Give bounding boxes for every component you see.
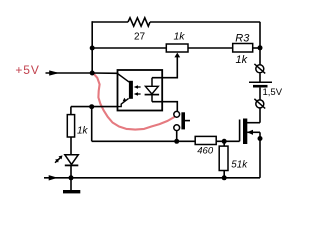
wire: R3 to right bus xyxy=(253,47,261,49)
resistor R3 body xyxy=(233,44,253,53)
svg-text:1,5V: 1,5V xyxy=(263,87,283,98)
test point (crossed circle) upper xyxy=(254,64,265,74)
label +5V xyxy=(15,63,39,77)
LED light arrows xyxy=(55,155,63,163)
label 27 xyxy=(134,31,146,42)
wire: diode anode to pot wiper xyxy=(152,53,180,78)
wire: diode cathode to button xyxy=(152,102,177,112)
svg-text:27: 27 xyxy=(134,31,146,42)
label 1,5V xyxy=(263,87,283,98)
label 1k (left resistor) xyxy=(77,126,89,137)
push button S1 xyxy=(174,111,190,141)
wire: +5V node to optocoupler xyxy=(92,72,117,74)
label 1k (potentiometer) xyxy=(173,30,185,42)
svg-text:51k: 51k xyxy=(231,160,248,171)
wire: test point to battery xyxy=(259,73,261,81)
transistor Q1 gate lead xyxy=(239,120,241,142)
wire: left vertical bus x=92 xyxy=(91,21,93,73)
junction node on emitter rail xyxy=(89,104,94,109)
input arrow (bottom rail) xyxy=(44,175,71,180)
wire: resistor to LED xyxy=(70,137,72,155)
wire: right bus upper xyxy=(259,22,261,65)
junction node at 51k top xyxy=(222,139,227,144)
wire: stub from emitter rail down to button rail xyxy=(91,107,93,142)
svg-text:R3: R3 xyxy=(235,33,250,45)
junction node at pot rail xyxy=(90,46,95,51)
test point (crossed circle) lower xyxy=(254,99,265,109)
wire: test point down to drain elbow xyxy=(259,108,261,122)
transistor Q1 source lead with arrow xyxy=(247,130,260,135)
input arrow +5V xyxy=(46,70,93,75)
ground xyxy=(63,178,80,194)
resistor 27 (zigzag) xyxy=(128,18,150,26)
resistor 51k body xyxy=(219,141,228,178)
svg-text:1k: 1k xyxy=(173,30,185,42)
optocoupler phototransistor emitter lead with arrow xyxy=(118,98,129,107)
wire: corner down to resistor 1k xyxy=(70,107,72,115)
wire: top rail right segment xyxy=(150,21,260,23)
freehand red highlight curve xyxy=(92,72,176,129)
label 460 xyxy=(197,145,214,156)
label 51k xyxy=(231,160,248,171)
junction node at ground xyxy=(69,175,74,180)
junction node at +5V xyxy=(90,71,95,76)
potentiometer 1k body xyxy=(166,44,188,52)
junction node at button xyxy=(174,139,179,144)
optocoupler light arrows xyxy=(134,85,141,95)
wire: top rail left segment xyxy=(92,21,128,23)
optocoupler U1 body xyxy=(118,70,163,111)
wire: bottom rail xyxy=(71,177,260,179)
resistor 1k (left vertical) xyxy=(67,115,74,137)
junction node 51k bottom xyxy=(222,175,227,180)
svg-text:1k: 1k xyxy=(77,126,89,137)
label 1k (R3 value) xyxy=(235,54,247,66)
wire: source down right bus xyxy=(259,132,261,178)
wire: LED to bottom rail xyxy=(70,165,72,177)
svg-text:460: 460 xyxy=(197,145,214,156)
battery cell 1,5V xyxy=(249,82,272,86)
transistor Q1 MOSFET channel bar xyxy=(243,119,247,145)
resistor 460 body xyxy=(195,136,216,144)
optocoupler LED (diode) xyxy=(145,78,160,102)
wire: button/gate rail y=141.3 xyxy=(92,140,240,142)
wire: pot to R3 xyxy=(188,47,233,49)
svg-text:1k: 1k xyxy=(235,54,247,66)
optocoupler phototransistor collector lead xyxy=(118,74,130,83)
junction node at right bus xyxy=(258,45,263,50)
wire: drain horizontal xyxy=(247,122,260,124)
junction node on source bus xyxy=(258,136,263,141)
label R3 xyxy=(235,33,250,45)
LED D1 xyxy=(65,155,79,166)
wire: battery to lower test point xyxy=(259,88,261,100)
svg-text:+5V: +5V xyxy=(15,63,39,77)
wire: emitter rail y=106.6 xyxy=(71,106,118,108)
optocoupler phototransistor base bar xyxy=(129,81,133,99)
wire: pot rail xyxy=(92,47,166,49)
